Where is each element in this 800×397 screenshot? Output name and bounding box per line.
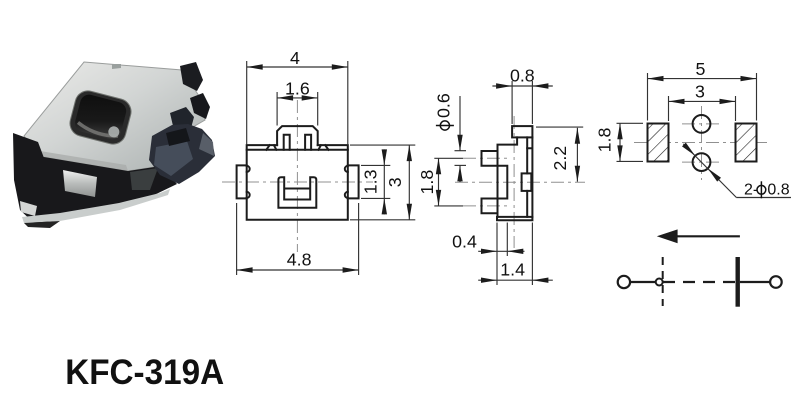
front view left terminal arcs	[247, 166, 250, 198]
front view left terminal	[237, 165, 247, 198]
dimension phi0.6 (stub thickness)	[434, 93, 466, 182]
side view body outline	[498, 137, 533, 217]
side view top terminal stub	[482, 151, 498, 166]
wire from bar to right terminal	[740, 281, 770, 283]
switch symbol left terminal circle	[618, 276, 630, 288]
dimension 3 (body height)	[350, 145, 415, 220]
dimension 5 (pad outer span)	[648, 59, 757, 121]
svg-text:2-: 2-	[744, 181, 758, 198]
leader 2-phi0.8 (hole diameter callout)	[682, 143, 791, 199]
right solder pad	[736, 124, 757, 162]
dimension 1.6 (button width)	[277, 79, 318, 126]
product photo: recessed stadium opening with button	[67, 88, 134, 147]
svg-text:1.3: 1.3	[361, 169, 381, 194]
front view right terminal	[348, 165, 359, 198]
movable contact small circle	[656, 279, 663, 286]
left solder pad	[648, 124, 669, 162]
land pattern vertical centerline	[701, 106, 703, 180]
svg-text:1.6: 1.6	[285, 79, 310, 99]
dimension 4.8 (terminal span)	[237, 203, 359, 275]
part number title	[65, 352, 224, 392]
side view moulded step	[498, 166, 508, 199]
side view contact bump	[522, 173, 532, 191]
front view button left slot	[284, 135, 290, 150]
svg-text:0.8: 0.8	[510, 65, 535, 85]
side view button cap	[512, 126, 532, 137]
front view left cover wedge	[266, 145, 276, 150]
dimension 1.8 (stub pitch)	[417, 158, 441, 206]
product photo: bottom metal terminal sliver	[22, 189, 170, 228]
svg-text:0.4: 0.4	[452, 232, 477, 252]
dimension 1.3 (terminal height)	[361, 149, 391, 214]
front view push button	[277, 126, 318, 145]
product photo: bottom-left metal terminal	[20, 170, 97, 216]
side view bottom plate	[497, 217, 532, 220]
svg-text:0.8: 0.8	[767, 181, 789, 198]
svg-text:3: 3	[385, 177, 405, 187]
front view body outline	[247, 145, 348, 220]
svg-text:4.8: 4.8	[287, 249, 312, 269]
side view top stub centerline	[434, 157, 507, 159]
dimension 1.4 (body depth)	[478, 223, 553, 286]
svg-text:4: 4	[290, 48, 300, 68]
svg-text:5: 5	[696, 59, 706, 79]
product photo: bottom-left black plastic base with band	[13, 133, 177, 224]
product photo: top-right black corner tabs	[170, 62, 210, 132]
svg-text:KFC-319A: KFC-319A	[65, 352, 224, 392]
dimension 1.8 (pad height, left of land pattern)	[595, 123, 643, 161]
switch symbol right terminal circle	[770, 276, 782, 288]
bottom hole centerline	[682, 161, 721, 163]
dimension 2.2 (height above seating plane)	[536, 127, 583, 182]
top hole	[693, 115, 711, 133]
side view vertical centerline	[513, 116, 515, 248]
svg-text:1.8: 1.8	[417, 170, 437, 195]
front view horizontal centerline	[222, 181, 373, 183]
side view horizontal centerline	[455, 181, 585, 183]
svg-text:1.4: 1.4	[500, 260, 525, 280]
front view vertical centerline	[296, 100, 298, 252]
horizontal dashed link	[663, 281, 736, 283]
dimension 3 (pad inner span)	[669, 82, 736, 121]
fixed contact bar	[736, 257, 740, 307]
product photo: right side dark plastic mass	[149, 124, 215, 184]
svg-text:0.6: 0.6	[434, 93, 454, 118]
front view right cover wedge	[318, 145, 328, 150]
dimension 4 (front view top width)	[247, 48, 348, 144]
dimension 0.8 (cap width)	[492, 65, 552, 124]
vertical dashed actuator line	[662, 257, 664, 306]
top hole centerline	[682, 123, 721, 125]
land pattern horizontal centerline	[634, 142, 770, 144]
side view bottom stub centerline	[434, 205, 507, 207]
side view bottom terminal stub	[482, 199, 498, 214]
wire from left terminal to contact	[630, 281, 656, 283]
front view right terminal arcs	[345, 166, 348, 198]
svg-text:1.8: 1.8	[595, 128, 615, 153]
svg-text:2.2: 2.2	[550, 146, 570, 171]
front view button right slot	[305, 135, 311, 150]
front view U-shaped contact clip	[278, 177, 316, 208]
actuation direction arrow	[657, 229, 740, 243]
product photo: switch body metal cover	[24, 62, 205, 171]
svg-text:3: 3	[695, 82, 705, 102]
dimension 0.4 (step depth)	[452, 223, 524, 286]
bottom hole	[693, 153, 711, 171]
